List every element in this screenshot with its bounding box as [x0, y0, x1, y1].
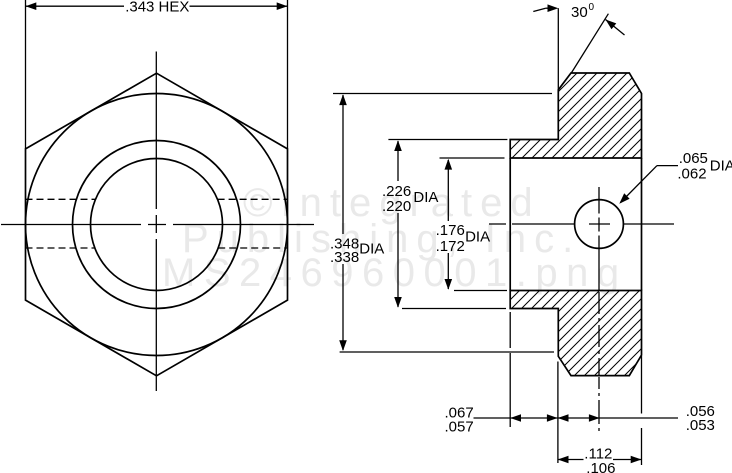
30 degree chamfer extension line: [558, 8, 608, 90]
svg-text:MS246960001.png: MS246960001.png: [162, 251, 628, 295]
outer circle (chamfer circle tangent to hex flats): [26, 94, 288, 356]
svg-text:.343 HEX: .343 HEX: [125, 0, 189, 16]
extension line left face below section: [509, 312, 511, 427]
dimension .112/.106: [558, 446, 642, 473]
vertical centerline of front view: [155, 52, 157, 392]
extension line nut face below section: [557, 362, 559, 464]
hidden dashed line upper: [26, 198, 288, 200]
svg-text:0: 0: [589, 2, 595, 13]
svg-text:.176: .176: [436, 222, 465, 239]
horizontal centerline of cross hole: [489, 223, 674, 225]
vertical centerline of cross hole: [598, 187, 600, 431]
svg-text:.106: .106: [586, 460, 615, 473]
dimension .348/.338 DIA: [330, 94, 384, 351]
watermark line 2: [182, 217, 581, 261]
extension lines .226/.220: [388, 140, 507, 309]
dimension .176/.172 DIA: [436, 159, 491, 290]
horizontal centerline of front view: [1, 224, 314, 226]
watermark line 3: [162, 251, 628, 295]
hexagon outline of nut front view: [26, 73, 288, 376]
extension lines .348/.338: [333, 94, 554, 353]
svg-text:.065: .065: [679, 150, 708, 167]
inner circle (bore): [91, 159, 223, 291]
30 degree dimension arrows: [533, 4, 624, 35]
dimension .343 HEX: [26, 0, 288, 16]
svg-text:DIA: DIA: [465, 228, 490, 245]
svg-text:.220: .220: [382, 198, 411, 215]
svg-text:.172: .172: [436, 238, 465, 255]
hidden dashed line lower: [26, 247, 288, 249]
svg-text:DIA: DIA: [710, 158, 732, 175]
section lower half hatched area: [510, 291, 641, 376]
extension line right face below section: [641, 356, 643, 465]
section upper half hatched area: [510, 73, 641, 158]
svg-text:.057: .057: [445, 419, 474, 436]
watermark line 1: [243, 181, 541, 225]
svg-text:.053: .053: [686, 417, 715, 434]
cross hole circle .065/.062: [575, 200, 624, 249]
svg-text:30: 30: [571, 4, 588, 21]
svg-text:.062: .062: [677, 166, 706, 183]
svg-text:DIA: DIA: [413, 189, 438, 206]
middle circle (boss outside diameter): [73, 141, 241, 309]
svg-text:DIA: DIA: [359, 241, 384, 258]
dimension line .067/.057 and .056/.053: [445, 403, 715, 435]
extension lines .176/.172: [440, 158, 508, 291]
bore side lines of section: [510, 158, 641, 291]
leader .065/.062 DIA: [619, 150, 732, 204]
svg-text:.338: .338: [330, 249, 359, 266]
dimension .226/.220 DIA: [382, 140, 438, 308]
extension lines for .343 HEX: [26, 0, 288, 149]
30 degree text: [571, 2, 595, 21]
